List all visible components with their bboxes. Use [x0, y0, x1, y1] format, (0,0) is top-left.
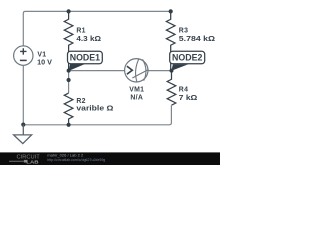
svg-text:NODE1: NODE1 — [70, 53, 100, 63]
svg-text:R4: R4 — [179, 86, 188, 93]
junction dot node1 column — [67, 78, 71, 82]
resistor R3 — [166, 11, 175, 70]
wire V1 bottom lead — [22, 65, 24, 124]
svg-text:R1: R1 — [76, 28, 85, 35]
svg-text:http://circuitlab.com/c/dg627u: http://circuitlab.com/c/dg627u2de59g — [47, 158, 105, 162]
wire top rail from R1 junction to R3 — [69, 10, 171, 12]
watermark bar — [0, 152, 220, 165]
wire voltmeter to NODE2 — [148, 70, 172, 72]
wire bottom rail to R4 — [23, 106, 171, 125]
wire top rail from V1 to R1 junction — [23, 11, 68, 46]
node NODE2 — [170, 51, 205, 71]
svg-text:mahir_026 / Lab 2 2: mahir_026 / Lab 2 2 — [47, 152, 84, 157]
junction dot R2 bottom — [67, 123, 71, 127]
svg-text:7 kΩ: 7 kΩ — [179, 95, 198, 102]
svg-text:VM1: VM1 — [129, 87, 144, 94]
junction dot at R3 top — [169, 9, 173, 13]
junction dot NODE2 tail — [170, 69, 174, 73]
junction dot NODE1 tail — [67, 69, 71, 73]
voltmeter VM1 — [125, 59, 149, 83]
svg-text:R3: R3 — [179, 28, 188, 35]
node NODE1 — [68, 51, 103, 71]
wire NODE1 to voltmeter — [69, 70, 125, 72]
svg-text:R2: R2 — [76, 98, 85, 105]
wire R1 bottom to R2 top — [68, 71, 70, 94]
voltage source V1 — [14, 46, 33, 65]
svg-text:N/A: N/A — [130, 94, 143, 101]
junction dot at R1 top — [67, 9, 71, 13]
watermark logo LAB — [9, 159, 39, 165]
resistor R2 — [64, 93, 73, 125]
resistor R4 — [167, 71, 176, 106]
svg-text:NODE2: NODE2 — [172, 53, 202, 63]
svg-text:varible Ω: varible Ω — [76, 105, 114, 112]
svg-text:10 V: 10 V — [37, 59, 52, 66]
svg-text:4.3 kΩ: 4.3 kΩ — [76, 36, 101, 43]
svg-text:5.784 kΩ: 5.784 kΩ — [179, 36, 216, 43]
svg-text:V1: V1 — [37, 51, 46, 58]
svg-text:LAB: LAB — [26, 159, 39, 165]
ground symbol — [14, 125, 32, 144]
resistor R1 — [64, 11, 73, 70]
junction dot V1/ground — [21, 123, 25, 127]
